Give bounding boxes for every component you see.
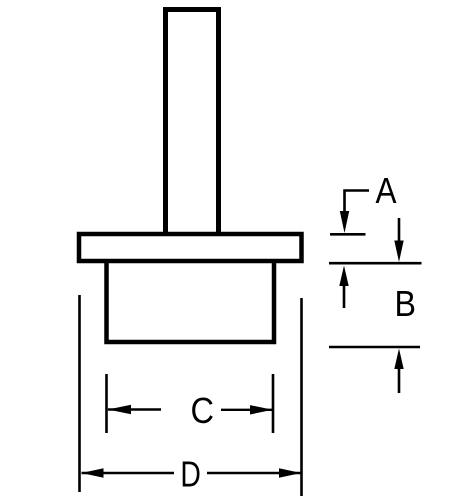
arrowhead A top (points down to flange top line) (340, 211, 349, 233)
arrowhead B bottom (points up to body bottom line) (394, 349, 403, 370)
extension line D left (78, 295, 81, 492)
extension line at flange bottom (A lower / B upper) (329, 262, 422, 265)
extension line D right (300, 298, 303, 496)
arrowhead C right (250, 405, 273, 414)
extension line at flange top (A upper) (330, 233, 366, 236)
svg-text:A: A (376, 170, 397, 211)
arrowhead D left (82, 468, 104, 478)
leader line for A (345, 191, 370, 213)
svg-text:B: B (394, 283, 416, 324)
body (lower block of part) (107, 258, 275, 342)
tail of A bottom arrow (343, 285, 346, 308)
extension line C left (105, 374, 108, 433)
extension line at body bottom (B lower) (329, 346, 420, 349)
flange (wide middle plate) (79, 234, 302, 261)
dimension line D left segment (82, 472, 175, 474)
arrowhead D right (279, 468, 301, 478)
arrowhead B top (points down to flange bottom line) (394, 241, 403, 263)
tail of B bottom arrow (398, 368, 401, 393)
dimension line C right segment (221, 409, 273, 411)
svg-text:C: C (191, 390, 215, 431)
tail of B top arrow (398, 218, 401, 242)
extension line C right (272, 374, 275, 433)
svg-text:D: D (180, 454, 201, 495)
dimension line C left segment (108, 408, 161, 410)
arrowhead A bottom (points up to flange bottom line) (339, 266, 348, 287)
arrowhead C left (108, 405, 131, 414)
shaft (top shank) (166, 10, 219, 234)
dimension line D right segment (207, 472, 301, 474)
